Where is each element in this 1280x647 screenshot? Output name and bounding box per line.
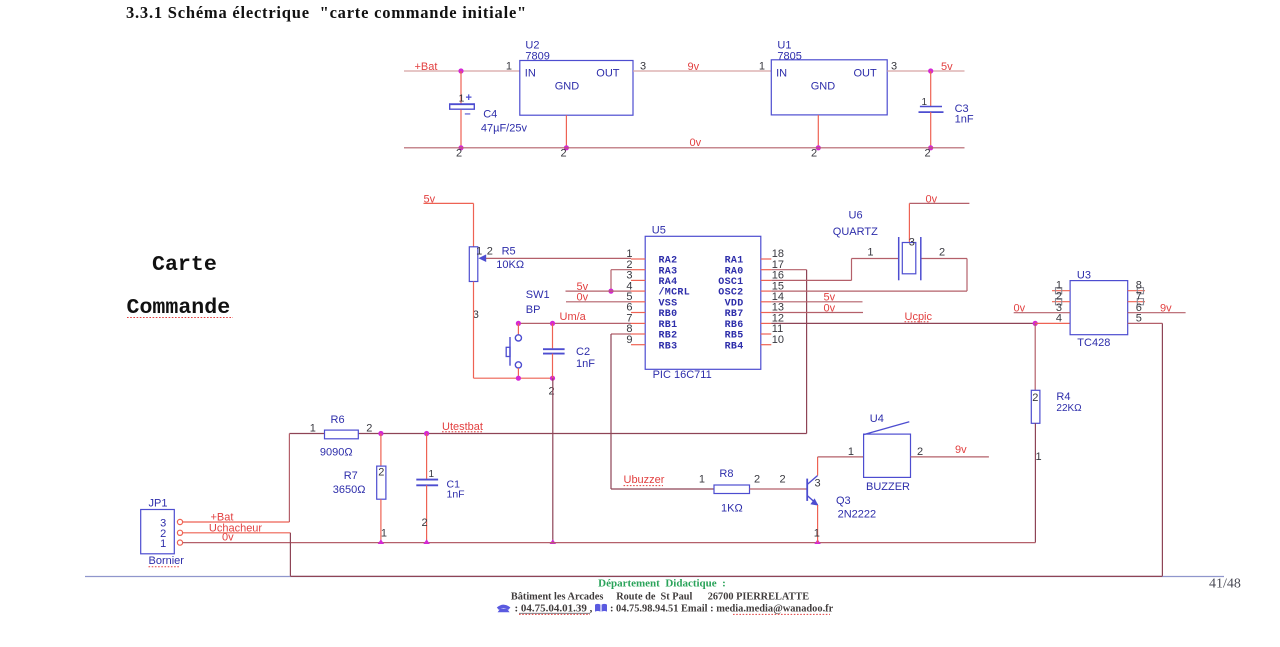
svg-text:: 04.75.98.94.51 Email : media: : 04.75.98.94.51 Email : media.media@wan… [610, 604, 834, 615]
svg-text:47µF/25v: 47µF/25v [481, 122, 528, 134]
svg-text:RB1: RB1 [659, 320, 678, 331]
svg-text:3: 3 [909, 237, 915, 249]
svg-text:1nF: 1nF [447, 488, 465, 500]
svg-text:OUT: OUT [596, 68, 620, 80]
svg-text:Ucpic: Ucpic [905, 311, 933, 323]
svg-text:10KΩ: 10KΩ [496, 259, 524, 271]
svg-text:U6: U6 [849, 210, 863, 222]
svg-text:QUARTZ: QUARTZ [833, 226, 878, 238]
svg-text:OUT: OUT [853, 68, 877, 80]
svg-text:SW1: SW1 [526, 289, 550, 301]
svg-text:9v: 9v [955, 444, 967, 456]
svg-text:BP: BP [526, 304, 541, 316]
svg-text:2: 2 [925, 148, 931, 160]
svg-text:2: 2 [422, 517, 428, 529]
svg-text:2: 2 [549, 386, 555, 398]
svg-text:R6: R6 [331, 414, 345, 426]
svg-text:R8: R8 [719, 468, 733, 480]
svg-text:2: 2 [1032, 392, 1038, 404]
svg-text:PIC 16C711: PIC 16C711 [653, 369, 712, 381]
svg-text:Département Didactique :: Département Didactique : [598, 578, 726, 590]
svg-text:4: 4 [1056, 313, 1062, 325]
svg-text:1: 1 [429, 469, 435, 480]
svg-text:GND: GND [555, 81, 580, 93]
svg-text:1: 1 [699, 473, 705, 485]
svg-text:1: 1 [922, 97, 928, 108]
svg-text:1KΩ: 1KΩ [721, 502, 743, 514]
svg-text:+: + [466, 92, 472, 104]
svg-text:1: 1 [814, 527, 820, 539]
svg-text:VDD: VDD [725, 298, 744, 309]
svg-text:TC428: TC428 [1077, 337, 1110, 349]
svg-text:Ubuzzer: Ubuzzer [624, 474, 665, 486]
svg-text:RB2: RB2 [659, 331, 678, 342]
svg-text:Carte: Carte [152, 253, 217, 277]
svg-text:IN: IN [525, 68, 536, 80]
svg-text:2: 2 [754, 473, 760, 485]
svg-text:1: 1 [867, 246, 873, 258]
svg-text:7805: 7805 [777, 51, 801, 63]
svg-text:Bornier: Bornier [149, 555, 185, 567]
svg-text:RB7: RB7 [725, 309, 744, 320]
svg-text:OSC1: OSC1 [718, 277, 743, 288]
svg-text:2: 2 [366, 423, 372, 435]
svg-text:22KΩ: 22KΩ [1056, 403, 1082, 414]
svg-text:5v: 5v [941, 61, 953, 73]
svg-text:RA1: RA1 [725, 256, 744, 267]
svg-text:U5: U5 [652, 224, 666, 236]
svg-text:R5: R5 [502, 246, 516, 258]
svg-text:1: 1 [848, 446, 854, 458]
svg-text:Commande: Commande [127, 296, 231, 320]
svg-text:+Bat: +Bat [415, 61, 438, 73]
svg-text:0v: 0v [824, 302, 836, 314]
svg-text:2: 2 [780, 473, 786, 485]
svg-text:1: 1 [506, 60, 512, 72]
svg-text:Q3: Q3 [836, 495, 851, 507]
svg-text:Utestbat: Utestbat [442, 421, 483, 433]
svg-text:2: 2 [456, 148, 462, 160]
svg-text:2: 2 [378, 467, 384, 479]
svg-text:RB4: RB4 [725, 341, 744, 352]
svg-text:0v: 0v [577, 292, 589, 304]
svg-text:1: 1 [310, 423, 316, 435]
svg-text:0v: 0v [690, 137, 702, 149]
svg-text:–: – [465, 108, 471, 120]
svg-text:1: 1 [759, 60, 765, 72]
svg-text:2: 2 [487, 246, 493, 258]
svg-text:R7: R7 [344, 470, 358, 482]
svg-text:JP1: JP1 [149, 498, 168, 510]
svg-text:5: 5 [1136, 313, 1142, 325]
svg-text:RB5: RB5 [725, 331, 744, 342]
svg-text:RA4: RA4 [659, 277, 678, 288]
svg-text:C2: C2 [576, 346, 590, 358]
svg-text:3: 3 [815, 478, 821, 490]
svg-text:RA0: RA0 [725, 266, 744, 277]
svg-text:3.3.1 Schéma électrique "cart: 3.3.1 Schéma électrique "carte commande … [126, 3, 527, 22]
svg-text:/MCRL: /MCRL [659, 287, 691, 299]
svg-text:GND: GND [811, 81, 836, 93]
svg-text:9090Ω: 9090Ω [320, 446, 353, 458]
svg-text:10: 10 [772, 334, 784, 346]
svg-text:1nF: 1nF [955, 114, 974, 126]
svg-text:9: 9 [626, 334, 632, 346]
svg-text:1nF: 1nF [576, 358, 595, 370]
svg-text:Bâtiment les Arcades Route: Bâtiment les Arcades Route de St Paul 26… [511, 591, 809, 602]
svg-text:RA3: RA3 [659, 266, 678, 277]
svg-text:1: 1 [459, 93, 465, 105]
svg-text:RA2: RA2 [659, 256, 678, 267]
svg-text:IN: IN [776, 68, 787, 80]
svg-text:R4: R4 [1056, 391, 1070, 403]
svg-text:Um/a: Um/a [560, 311, 587, 323]
svg-text:7809: 7809 [525, 51, 549, 63]
svg-text:2: 2 [1056, 290, 1062, 302]
svg-text:C4: C4 [483, 108, 497, 120]
svg-text:U4: U4 [870, 413, 884, 425]
svg-text:RB3: RB3 [659, 341, 678, 352]
svg-text:1: 1 [160, 538, 166, 550]
svg-text:RB0: RB0 [659, 309, 678, 320]
svg-text:7: 7 [1136, 290, 1142, 302]
svg-text:U3: U3 [1077, 270, 1091, 282]
svg-text:2: 2 [917, 446, 923, 458]
svg-text:Uchacheur: Uchacheur [209, 522, 263, 534]
svg-text:OSC2: OSC2 [718, 288, 743, 299]
svg-text:9v: 9v [1160, 302, 1172, 314]
svg-text:: 04.75.04.01.39 ,: : 04.75.04.01.39 , [515, 603, 593, 615]
svg-text:VSS: VSS [659, 298, 678, 309]
svg-text:0v: 0v [1014, 302, 1026, 314]
svg-text:1: 1 [476, 246, 482, 258]
svg-text:RB6: RB6 [725, 320, 744, 331]
svg-text:BUZZER: BUZZER [866, 481, 910, 493]
svg-text:1: 1 [381, 528, 387, 540]
svg-text:9v: 9v [688, 61, 700, 73]
svg-text:2: 2 [939, 246, 945, 258]
svg-text:1: 1 [1036, 451, 1042, 463]
svg-text:0v: 0v [222, 531, 234, 543]
svg-text:2: 2 [811, 148, 817, 160]
svg-text:41/48: 41/48 [1209, 577, 1241, 592]
svg-text:2: 2 [561, 148, 567, 160]
svg-text:3650Ω: 3650Ω [333, 484, 366, 496]
svg-text:2N2222: 2N2222 [838, 508, 877, 520]
